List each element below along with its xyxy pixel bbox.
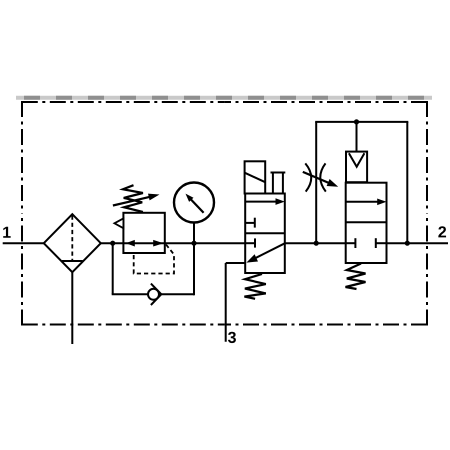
- return spring of U1: [244, 274, 265, 299]
- regulator adjustment arrow: [113, 197, 150, 206]
- valve U2 position divider: [346, 221, 387, 223]
- filter F1 body: [44, 214, 101, 272]
- valve U1 rest-position blocked port: [245, 242, 255, 244]
- grey highlight band above top border: [16, 96, 432, 100]
- valve U2 open-position flow arrow: [346, 201, 379, 203]
- throttle valve FL1 arcs: [305, 163, 311, 191]
- wire: bypass down from node A: [112, 243, 114, 294]
- wire: soft-start valve to port 2: [387, 242, 449, 244]
- wire: bypass bottom right: [161, 293, 194, 295]
- wire: pilot top line: [315, 121, 408, 123]
- valve U2 closed-position blocked port left: [346, 242, 356, 244]
- filter condensate separator line: [62, 260, 83, 262]
- enclosure dash-dot border bottom: [22, 324, 225, 326]
- pilot check valve box of U2: [346, 152, 367, 183]
- pressure gauge G1: [174, 183, 214, 223]
- manual override button of U1: [272, 173, 274, 194]
- check valve V1 seat: [151, 284, 161, 305]
- wire: port 1 to filter: [3, 242, 45, 244]
- gauge needle: [191, 199, 204, 213]
- regulator relief vent triangle: [114, 218, 123, 228]
- gauge stem: [193, 223, 195, 244]
- check valve V1 ball: [148, 289, 159, 300]
- wire: bypass bottom left: [112, 293, 149, 295]
- node A (regulator branch): [110, 241, 115, 246]
- valve U1 actuated-position flow arrow: [245, 201, 277, 203]
- node B (gauge branch): [191, 241, 196, 246]
- port 2 label: [438, 226, 446, 237]
- valve U2 (soft-start 2/2 valve) body: [346, 183, 387, 263]
- valve U1 rest-position exhaust path arrow: [254, 243, 285, 258]
- port 3 label: [228, 332, 236, 343]
- port 1 label: [3, 227, 10, 238]
- return spring of U2: [346, 264, 366, 290]
- wire: right vertical to node E: [406, 122, 408, 243]
- wire: bypass up to node B: [193, 243, 195, 295]
- enclosure dash-dot border right: [426, 101, 428, 213]
- filter element dashed line: [71, 216, 73, 261]
- regulator pilot dashed line: [134, 245, 174, 274]
- regulator R1 body: [123, 213, 164, 253]
- valve U1 (3/2 solenoid valve) body: [245, 194, 285, 274]
- node D (pilot junction): [354, 119, 359, 124]
- wire: filter to 3/2 valve (through regulator): [100, 242, 245, 244]
- wire: 3/2 valve to soft-start valve: [285, 242, 346, 244]
- solenoid coil of U1: [245, 161, 266, 193]
- valve U2 closed-position blocked port right: [376, 242, 387, 244]
- enclosure dash-dot border top: [22, 101, 225, 103]
- regulator spring: [123, 185, 143, 212]
- node C (throttle branch): [314, 241, 319, 246]
- regulator arrows on flow line: [126, 240, 135, 247]
- enclosure dash-dot border left: [21, 101, 23, 213]
- wire: exhaust port 3: [226, 262, 246, 264]
- filter drain line: [71, 272, 73, 344]
- valve U1 position divider: [245, 232, 285, 234]
- node E (output junction): [405, 241, 410, 246]
- throttle adjustment arrow: [303, 172, 329, 183]
- wire: throttle branch vertical: [315, 122, 317, 243]
- wire: pilot down line: [356, 122, 358, 152]
- valve U1 actuated-position blocked port: [245, 222, 255, 224]
